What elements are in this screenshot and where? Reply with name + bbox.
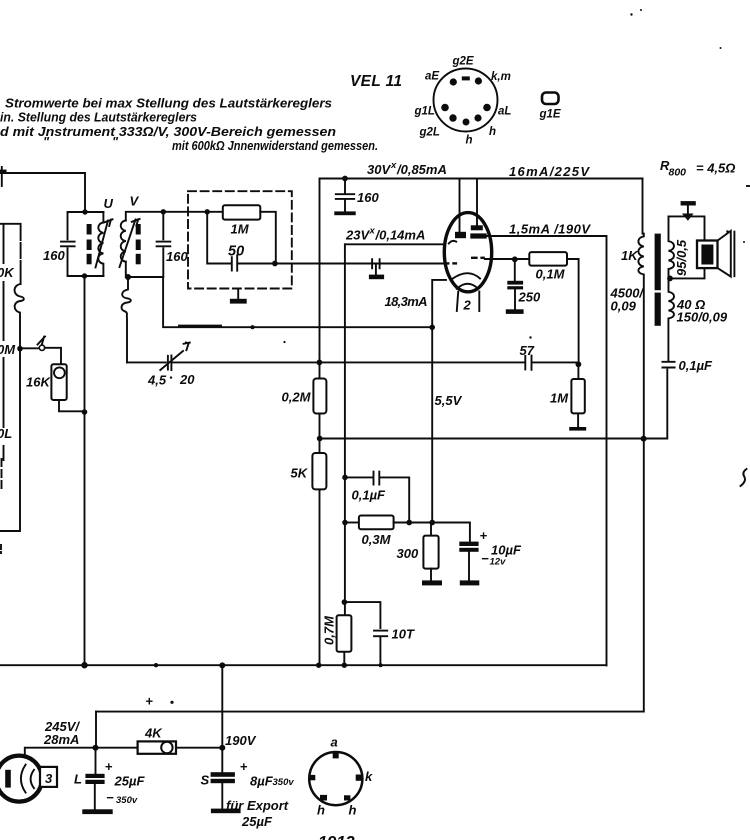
capacitor 10uF electrolytic [459,542,478,546]
wire bus to S cap [221,665,223,772]
resistor 0,3M [345,522,359,524]
bus wire B+ (y712) [96,711,644,713]
coil L-U (right branch of U tank) [98,212,103,276]
svg-text:3: 3 [45,771,53,786]
wire 0,1M right down [567,259,579,364]
capacitor 160 (V tank) plates [157,241,171,243]
svg-text:0,1M: 0,1M [536,267,566,282]
svg-text:/0,85mA: /0,85mA [396,162,447,177]
wire top-left input [0,173,85,212]
capacitor 0,1uF branch [345,476,372,478]
left edge cut component line [3,225,5,460]
svg-text:+: + [480,528,488,543]
svg-text:+: + [146,694,154,709]
svg-text:16K: 16K [26,375,51,390]
svg-text:+: + [240,759,248,774]
svg-text:160: 160 [166,249,188,264]
svg-text:aE: aE [425,71,439,83]
electrode aE bar [455,232,466,238]
svg-text:k,m: k,m [491,71,511,83]
svg-text:h: h [349,803,357,818]
svg-text:0L: 0L [0,426,12,441]
node bus 5K [316,663,321,668]
rectifier anode arcs [21,765,26,793]
node V top right [161,209,166,214]
wire 0M down and off left [0,349,20,531]
svg-text:": " [43,134,50,149]
secondary top wire [669,216,705,240]
wire feedback row y438 [320,370,668,439]
blob on line [250,325,254,329]
heater pin leads [457,292,480,312]
svg-text:0,7M: 0,7M [322,615,337,645]
svg-text:190V: 190V [225,733,257,748]
wire 0M to pot terminal [23,347,40,349]
node 0,3M left [342,520,348,526]
node U top [82,209,87,214]
svg-text:−: − [481,551,489,566]
noise squiggle right [741,469,747,486]
node 16K bus [82,409,88,415]
svg-text:h: h [317,803,325,818]
svg-text:VEL 11: VEL 11 [350,73,402,90]
svg-text:U: U [104,196,114,211]
core bars U [87,224,92,235]
svg-text:0M: 0M [0,342,16,357]
svg-text:0,2M: 0,2M [282,390,312,405]
IF transformer V tank loop [126,212,164,277]
svg-text:aL: aL [498,106,511,118]
tube VEL11 envelope [444,213,491,292]
svg-text:18,3mA: 18,3mA [385,294,428,309]
socket pin h left [320,795,327,801]
svg-text:S: S [201,773,210,788]
grid dashes g1 [444,262,450,264]
socket pin key (top bar) [462,76,470,80]
svg-text:−: − [106,790,114,805]
node x319 y438 [317,436,323,442]
coil below V tank [122,277,131,362]
node 1M left [205,209,210,214]
node bus small [154,663,158,667]
node cathode row [429,325,435,331]
svg-text:50: 50 [228,244,244,260]
svg-text:0,1µF: 0,1µF [352,488,387,503]
node 190V [219,745,225,751]
svg-text:300: 300 [397,546,419,561]
svg-text:mit 600kΩ Jnnenwiderstand geme: mit 600kΩ Jnnenwiderstand gemessen. [172,138,378,153]
specks [630,13,632,15]
coil antenna [15,284,24,349]
wire 50 to node [238,263,275,265]
top-cap symbol g1E [542,93,559,105]
resistor 1M (grid leak) [223,205,260,219]
shield dashed box [188,191,292,288]
svg-text:12v: 12v [490,557,507,568]
secondary coil upper (95/0,5) [669,216,674,278]
svg-text:/0,14mA: /0,14mA [375,228,426,243]
edge tick right [747,185,750,187]
svg-text:8µF: 8µF [250,774,274,789]
capacitor L 25uF [95,748,97,774]
socket pin aE [450,78,457,85]
svg-text:16mA/225V: 16mA/225V [509,164,590,179]
speaker cone [718,231,731,277]
tuning arrow V [120,220,136,268]
node cathode bottom [429,520,435,526]
wire bus2 left down [95,712,97,748]
svg-text:h: h [466,135,473,147]
wire drop to pentode anode [476,179,478,227]
tube socket diagram circle [434,69,498,132]
grid dashes middle [471,257,478,259]
wire 1M left down [207,212,231,264]
resistor 0,7M [337,615,352,651]
svg-text:250: 250 [518,290,541,305]
antenna wire left [0,224,21,284]
node 0,1uF right [406,520,412,526]
trimmer capacitor plates [168,355,172,370]
svg-text:30V: 30V [367,162,391,177]
svg-text:V: V [130,194,140,209]
node screen [512,256,518,262]
svg-text:25µF: 25µF [241,814,273,829]
svg-text:0,09: 0,09 [611,299,637,314]
wire grid W2 to tube [275,263,445,265]
rectifier cathode bar [5,770,11,788]
capacitor 160 (decoupling) [344,179,346,194]
electrode aL bar [471,225,483,230]
transformer core bar lower [655,293,661,326]
svg-text:10µF: 10µF [491,543,522,558]
resistor 5K [312,453,326,489]
dot between [170,376,172,378]
svg-text:5K: 5K [291,466,309,481]
node AVC x319 [317,360,323,366]
left edge fragments [1,459,3,491]
node 0,1uF branch [342,475,348,481]
wire 1M right down [260,212,276,264]
speaker magnet box [697,241,718,269]
feedthrough capacitor ticks [372,259,380,268]
svg-text:0,3M: 0,3M [362,532,392,547]
node grid junction [272,261,278,267]
transformer core bar upper [655,234,661,291]
svg-text:+: + [105,759,113,774]
socket pin g2L [449,114,456,121]
ground (feedthrough) [375,264,377,275]
svg-text:25µF: 25µF [114,774,146,789]
svg-text:5,5V: 5,5V [435,393,463,408]
wire 16K to thick vertical [59,400,85,411]
wire screen divider vertical x319 [319,179,321,666]
svg-text:20: 20 [179,372,195,387]
trimmer arrow [160,351,183,370]
primary coil 1K [638,234,643,712]
svg-text:4,5: 4,5 [147,373,167,388]
node U bottom [82,273,87,278]
tuning arrow U [96,221,109,268]
node bus 0,7M [342,663,347,668]
wire grid divider vertical x345 [343,244,346,665]
svg-text:95/0,5: 95/0,5 [674,239,689,276]
node 10T bus [379,663,383,667]
wire V to grid filter [163,211,223,213]
svg-text:0,1µF: 0,1µF [679,358,714,373]
socket pin h bottom [463,119,470,126]
node y438 transformer [641,436,647,442]
svg-text:28mA: 28mA [43,732,79,747]
resistor 4K with fuse circle [138,741,176,753]
svg-text:g2E: g2E [452,56,474,68]
socket pin g1L [441,104,449,112]
svg-text:= 4,5Ω: = 4,5Ω [696,161,735,176]
svg-text:1913: 1913 [318,834,355,840]
potentiometer 16K [51,364,66,400]
svg-text:h: h [489,126,496,138]
svg-text:23V: 23V [345,228,370,243]
svg-text:a: a [331,735,338,750]
rectifier socket diagram [309,752,362,805]
rectifier tube envelope [0,756,42,802]
resistor 300 [430,523,432,536]
chassis T symbol [681,201,696,205]
wire anode supply top [320,178,643,180]
node V bottom left [125,274,131,280]
svg-text:x: x [390,160,397,171]
wire drop to triode anode [459,179,461,232]
wire g2 to bus (1,5mA/190V) [487,236,607,665]
wire rectifier to 190V row [25,748,138,757]
svg-text:g1L: g1L [414,106,435,118]
svg-text:für Export: für Export [226,798,289,813]
svg-text:350v: 350v [273,777,295,788]
wire AVC line y362 [127,361,578,363]
node 0M [17,346,23,352]
capacitor 50 plates [231,257,233,270]
svg-text:1,5mA /190V: 1,5mA /190V [509,222,591,237]
capacitor 250 [514,259,516,281]
wire W1 grid feed [345,243,445,245]
secondary coil lower (40 ohm) [669,278,674,318]
svg-text:57: 57 [520,343,535,358]
wire screen to 0,1M [485,258,530,260]
svg-text:L: L [74,772,82,787]
svg-text:160: 160 [357,190,379,205]
wire 4K to 190V node [176,747,222,749]
coil L-V (left branch of V tank) [121,221,126,262]
svg-text:1M: 1M [231,222,250,237]
svg-text:d mit Jnstrument 333Ω/V, 300V: d mit Jnstrument 333Ω/V, 300V-Bereich ge… [0,124,336,139]
cathode arc [452,273,480,279]
ground (shield box) [237,289,239,300]
socket pin k,m [475,77,482,84]
capacitor S 8uF [211,772,235,777]
wiper arrow [38,337,46,345]
pin box 3 [40,767,57,787]
svg-text:g1E: g1E [539,109,561,121]
svg-text:x: x [369,226,376,237]
heater arc [457,284,478,289]
svg-text:4K: 4K [144,726,163,741]
wire U bottom to bus (thick) [84,276,86,665]
node bus U line [81,662,87,668]
resistor 1M (right) [577,364,579,379]
wire anode to output transformer [642,179,644,234]
wire cathode row (18,3mA) [163,277,432,327]
svg-text:1K: 1K [621,248,639,263]
capacitor 10T branch [344,602,380,628]
IF transformer U tank loop [68,212,104,276]
svg-text:g2L: g2L [419,127,440,139]
socket pin left [309,775,315,780]
bus wire B- (y665) [0,664,607,666]
svg-text:Stromwerte bei max Stellung de: Stromwerte bei max Stellung des Lautstär… [5,96,332,111]
node 160 top [342,176,348,182]
svg-text:10T: 10T [392,627,415,642]
terminal circle [39,345,44,350]
wire secondary mid to speaker [670,268,705,278]
svg-text:150/0,09: 150/0,09 [677,310,728,325]
svg-text:350v: 350v [116,795,138,806]
svg-text:in. Stellung des Lautstärkereg: in. Stellung des Lautstärkereglers [0,110,197,125]
core bars V [136,224,141,235]
svg-text:": " [112,134,119,149]
socket pin aL [483,104,491,112]
svg-text:160: 160 [43,248,65,263]
socket pin h right [344,795,350,800]
node bus 190V line [219,662,225,668]
node AVC 1M top [576,361,582,367]
socket pin h right [474,114,481,121]
node 0,7M top [342,599,348,605]
node L cap [93,745,99,751]
node secondary mid [667,276,673,282]
resistor 0,1M [529,252,567,266]
wire terminal to 16K [45,348,61,365]
socket pin k [356,775,363,781]
resistor 0,2M [313,379,326,414]
socket pin a [333,753,339,759]
svg-text:1M: 1M [550,391,569,406]
wire cathode from tube [432,280,446,523]
capacitor 57 plates [525,356,531,370]
svg-text:2: 2 [463,298,472,313]
capacitor 160 (U tank) plates [61,241,75,243]
capacitor 0,1uF (speaker) plates [662,362,674,368]
svg-text:0K: 0K [0,265,15,280]
wire stub left edge [0,170,7,174]
svg-text:k: k [365,769,373,784]
electrode g2 bar [470,233,486,238]
svg-text:800: 800 [669,167,687,179]
